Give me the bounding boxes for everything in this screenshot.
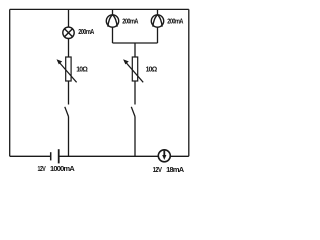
arrowhead R2 [123,59,129,64]
wire stub lamp2 top [112,9,114,14]
switch S2 (open) [131,107,135,117]
wire lamp2 bottom to junction [112,27,114,43]
switch S1 (open) [65,107,69,117]
battery B1 [51,149,59,163]
wire branch1 switch to bottom [68,117,70,157]
wire left side [9,9,11,156]
wire bottom battery to meter [59,155,158,157]
rheostat R1 (rect with arrow) [59,57,77,82]
meter M1 (circle with down arrow) [158,150,170,162]
wire junction to rheostat2 [134,43,136,57]
wire bottom meter to right corner [171,155,189,157]
wire junction horizontal [113,42,158,44]
wire branch1 rheostat to switch [68,81,70,105]
svg-text:200mA: 200mA [78,28,94,36]
svg-text:10Ω: 10Ω [146,66,158,73]
svg-text:10Ω: 10Ω [76,66,88,73]
arrowhead R1 [57,59,63,64]
wire branch2 rheostat to switch [134,81,136,105]
wire lamp3 bottom to junction [157,27,159,43]
svg-text:200mA: 200mA [167,18,183,26]
lamp L1 (circle with X) [63,27,74,38]
svg-text:12V: 12V [38,166,47,174]
wire branch2 switch to bottom [134,117,136,157]
wire branch1 top to lamp [68,9,70,27]
svg-text:200mA: 200mA [122,18,138,26]
wire stub lamp3 top [157,9,159,14]
arrowhead meter [162,155,166,160]
lamp L3 (circle with arch symbol) [151,15,163,28]
wire top rail [10,8,189,10]
lamp L2 (circle with arch symbol) [106,15,118,28]
wire branch1 lamp to rheostat [68,38,70,57]
svg-text:12V: 12V [153,166,163,174]
rheostat R2 (rect with arrow) [125,57,143,82]
svg-text:18mA: 18mA [166,165,185,174]
wire bottom left of battery [10,155,51,157]
wire right side [188,9,190,156]
svg-text:1000mA: 1000mA [50,164,76,173]
